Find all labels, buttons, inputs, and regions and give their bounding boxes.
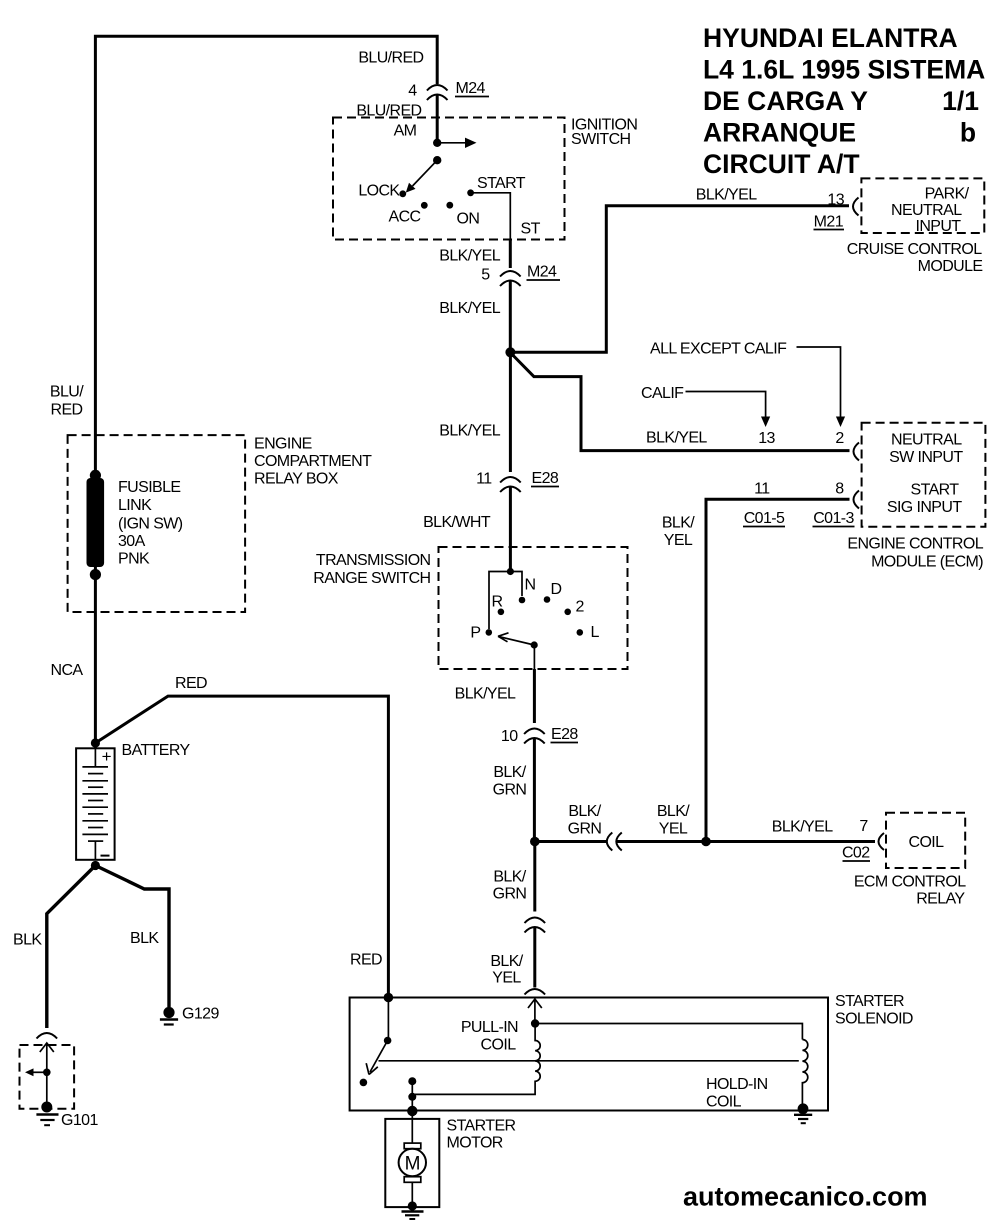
hold-in coil windings — [802, 1040, 807, 1109]
starter motor box — [385, 1119, 439, 1207]
wire BLK to G129 — [95, 866, 169, 1008]
wire branch CALIF/ALL-EXCEPT to ECM — [512, 355, 849, 451]
svg-text:COIL: COIL — [706, 1094, 742, 1111]
svg-text:BLU/: BLU/ — [50, 384, 84, 401]
svg-text:ACC: ACC — [389, 209, 421, 226]
svg-text:RANGE SWITCH: RANGE SWITCH — [313, 570, 430, 587]
wire BLK/YEL to starter solenoid — [533, 927, 536, 988]
svg-text:13: 13 — [758, 430, 775, 447]
svg-text:2: 2 — [835, 430, 844, 447]
svg-text:MODULE: MODULE — [918, 258, 983, 275]
svg-text:DE CARGA Y: DE CARGA Y — [703, 86, 868, 116]
svg-text:13: 13 — [827, 192, 844, 209]
svg-text:5: 5 — [481, 267, 490, 284]
svg-text:E28: E28 — [532, 470, 559, 487]
ignition switch blade toward LOCK — [413, 160, 438, 186]
svg-text:PULL-IN: PULL-IN — [461, 1019, 518, 1036]
svg-text:C02: C02 — [842, 845, 870, 862]
connector in-line vertical (BLK/GRN - BLK/YEL) — [525, 918, 546, 933]
svg-text:C01-3: C01-3 — [813, 510, 854, 527]
transmission range switch dashed box — [439, 547, 628, 669]
starter solenoid box — [350, 998, 828, 1111]
node starter motor terminal (lower) — [408, 1093, 416, 1101]
svg-text:PARK/: PARK/ — [925, 186, 970, 203]
svg-text:11: 11 — [476, 471, 492, 488]
wire to hold-in coil — [535, 1024, 802, 1040]
svg-text:C01-5: C01-5 — [744, 510, 785, 527]
connector pin 8 at ECM — [854, 491, 860, 509]
svg-text:10: 10 — [501, 728, 518, 745]
solenoid switch contact (bottom) — [360, 1079, 368, 1087]
svg-text:D: D — [551, 581, 562, 598]
svg-text:COMPARTMENT: COMPARTMENT — [254, 453, 372, 470]
svg-text:2: 2 — [576, 599, 585, 616]
svg-text:LINK: LINK — [118, 497, 152, 514]
svg-text:CALIF: CALIF — [641, 385, 684, 402]
svg-text:BLK/YEL: BLK/YEL — [439, 248, 500, 265]
wire BLK/YEL to junction — [509, 281, 512, 353]
svg-text:ECM CONTROL: ECM CONTROL — [854, 874, 966, 891]
svg-text:ON: ON — [457, 211, 480, 228]
battery — [76, 748, 115, 860]
svg-text:GRN: GRN — [493, 886, 527, 903]
solenoid switch blade with open arrow — [366, 1041, 387, 1075]
connector at G101 (arc + arrow) — [37, 1033, 58, 1039]
svg-text:R: R — [492, 594, 503, 611]
wire BLK/GRN to junction — [533, 738, 536, 842]
wire BLU/RED into ignition switch — [436, 95, 439, 144]
wire to starter motor — [411, 1081, 413, 1143]
svg-text:HOLD-IN: HOLD-IN — [706, 1076, 768, 1093]
connector M24 pin 5 (in-line, vertical) — [500, 271, 521, 286]
node RED wire entry on solenoid — [384, 993, 394, 1003]
connector M24 pin 4 (in-line, vertical) — [427, 85, 448, 100]
solenoid main contact bar — [379, 1060, 799, 1062]
wire BLU/RED battery feed: left vertical + top run to ignition switch — [95, 36, 437, 743]
connector C02 at ECM control relay coil — [879, 833, 885, 850]
svg-text:PNK: PNK — [118, 551, 150, 568]
svg-text:30A: 30A — [118, 533, 146, 550]
svg-text:BLK/: BLK/ — [493, 764, 526, 781]
svg-text:INPUT: INPUT — [915, 218, 961, 235]
svg-text:11: 11 — [754, 481, 770, 498]
svg-text:MODULE (ECM): MODULE (ECM) — [871, 554, 983, 571]
connector M21 at cruise control module — [853, 198, 859, 216]
svg-text:SIG INPUT: SIG INPUT — [887, 499, 962, 516]
wire BLK/YEL down from junction — [509, 352, 512, 472]
svg-text:COIL: COIL — [481, 1037, 517, 1054]
wire BLK/YEL to junction at ECM feed — [616, 840, 876, 843]
svg-text:P: P — [470, 625, 480, 642]
svg-text:BLK/YEL: BLK/YEL — [455, 686, 516, 703]
ignition switch pivot node — [433, 156, 441, 164]
svg-text:COIL: COIL — [909, 834, 945, 851]
svg-text:ENGINE: ENGINE — [254, 436, 312, 453]
svg-text:N: N — [525, 577, 536, 594]
wire BLK/GRN right to in-line connector — [535, 840, 607, 843]
ground at hold-in coil — [798, 1103, 809, 1114]
wire BLK to G101 — [47, 866, 96, 1029]
svg-text:1/1: 1/1 — [942, 86, 979, 116]
svg-text:BLK/: BLK/ — [493, 869, 526, 886]
svg-text:NEUTRAL: NEUTRAL — [891, 202, 962, 219]
svg-text:RELAY BOX: RELAY BOX — [254, 471, 339, 488]
cruise control module PARK/NEUTRAL INPUT dashed box — [861, 178, 984, 233]
ignition switch wiper arrow to right — [437, 142, 466, 144]
svg-text:AM: AM — [394, 123, 417, 140]
svg-text:ALL EXCEPT CALIF: ALL EXCEPT CALIF — [650, 341, 787, 358]
connector pin 2 at ECM — [854, 443, 860, 461]
connector E28 pin 11 (in-line, vertical) — [500, 477, 521, 492]
pull-in coil windings — [412, 1024, 540, 1095]
node inside G101 with left arrow — [43, 1069, 51, 1077]
wire BLK/WHT into transmission range switch — [509, 487, 512, 572]
svg-text:SWITCH: SWITCH — [571, 131, 631, 148]
svg-text:BLK/: BLK/ — [568, 803, 601, 820]
svg-text:SOLENOID: SOLENOID — [835, 1011, 913, 1028]
svg-text:BLK/: BLK/ — [662, 515, 695, 532]
wire BLK/YEL below TRS — [533, 645, 535, 669]
G101 dashed box — [20, 1045, 75, 1109]
node on solenoid box bottom edge — [407, 1106, 417, 1116]
svg-text:+: + — [102, 747, 112, 766]
svg-text:L4 1.6L 1995 SISTEMA: L4 1.6L 1995 SISTEMA — [703, 55, 985, 85]
svg-text:8: 8 — [835, 481, 844, 498]
svg-text:START: START — [911, 482, 960, 499]
svg-text:ARRANQUE: ARRANQUE — [703, 118, 856, 148]
svg-text:HYUNDAI ELANTRA: HYUNDAI ELANTRA — [703, 23, 958, 53]
svg-text:BLK/WHT: BLK/WHT — [423, 514, 491, 531]
svg-text:START: START — [477, 175, 526, 192]
solenoid switch contact (top) — [384, 1037, 392, 1045]
wire bracket to P and N contacts — [489, 572, 522, 630]
wire ST from START contact — [471, 193, 511, 240]
svg-text:YEL: YEL — [664, 532, 693, 549]
svg-text:TRANSMISSION: TRANSMISSION — [316, 552, 431, 569]
svg-text:GRN: GRN — [568, 821, 602, 838]
wire START SIG to ECM pin 8 — [706, 499, 850, 841]
svg-text:M: M — [405, 1154, 420, 1175]
wire motor to ground — [411, 1182, 413, 1206]
wire RED from battery to solenoid — [95, 696, 388, 997]
TITLE BLOCK — [703, 23, 985, 179]
svg-text:M24: M24 — [456, 80, 486, 97]
connector at solenoid case (arc + arrow) — [525, 989, 546, 995]
svg-text:STARTER: STARTER — [447, 1118, 516, 1135]
svg-text:ENGINE CONTROL: ENGINE CONTROL — [847, 536, 983, 553]
svg-text:automecanico.com: automecanico.com — [683, 1182, 928, 1212]
engine control module dashed box — [862, 423, 986, 527]
svg-text:YEL: YEL — [659, 821, 688, 838]
node junction with ECM vertical wire — [701, 837, 711, 847]
ground G101 — [41, 1102, 52, 1113]
svg-text:M21: M21 — [814, 214, 844, 231]
connector in-line horizontal (BLK/GRN - BLK/YEL) — [607, 833, 622, 851]
ECM control relay COIL dashed box — [886, 813, 965, 868]
svg-text:BATTERY: BATTERY — [122, 742, 191, 759]
svg-text:BLK/YEL: BLK/YEL — [696, 187, 757, 204]
svg-text:M24: M24 — [527, 264, 557, 281]
svg-text:RED: RED — [175, 675, 207, 692]
node starter motor terminal (upper) — [408, 1077, 416, 1085]
svg-text:7: 7 — [859, 818, 868, 835]
node at wire entry inside TRS — [507, 568, 514, 575]
svg-text:BLK/: BLK/ — [657, 803, 690, 820]
svg-text:BLK/: BLK/ — [490, 953, 523, 970]
svg-text:L: L — [591, 624, 600, 641]
svg-text:BLK/YEL: BLK/YEL — [646, 430, 707, 447]
svg-text:E28: E28 — [551, 726, 578, 743]
svg-text:4: 4 — [408, 83, 417, 100]
svg-text:BLK: BLK — [130, 930, 159, 947]
svg-text:RED: RED — [350, 952, 382, 969]
svg-text:RELAY: RELAY — [916, 891, 965, 908]
fusible link (IGN SW) 30A PNK — [90, 470, 101, 481]
wire branch to park/neutral input M21 — [510, 206, 849, 352]
svg-text:ST: ST — [521, 221, 541, 238]
motor brush (bottom) — [404, 1177, 421, 1183]
ground at starter motor — [408, 1201, 417, 1210]
svg-text:SW INPUT: SW INPUT — [889, 449, 963, 466]
svg-text:NEUTRAL: NEUTRAL — [891, 432, 962, 449]
svg-text:MOTOR: MOTOR — [447, 1135, 503, 1152]
svg-text:(IGN SW): (IGN SW) — [118, 516, 183, 533]
svg-text:b: b — [960, 118, 976, 148]
svg-text:CIRCUIT A/T: CIRCUIT A/T — [703, 149, 860, 179]
node pull-in coil junction — [531, 1019, 539, 1027]
svg-text:G129: G129 — [182, 1006, 219, 1023]
svg-text:FUSIBLE: FUSIBLE — [118, 479, 181, 496]
svg-text:BLK/YEL: BLK/YEL — [439, 300, 500, 317]
svg-text:BLK/YEL: BLK/YEL — [439, 423, 500, 440]
node battery positive — [91, 738, 100, 747]
svg-text:STARTER: STARTER — [835, 993, 904, 1010]
svg-text:G101: G101 — [61, 1112, 98, 1129]
node junction BLK/GRN (left) — [530, 837, 540, 847]
svg-text:BLK/YEL: BLK/YEL — [772, 819, 833, 836]
connector E28 pin 10 (in-line, vertical) — [524, 729, 545, 744]
svg-text:GRN: GRN — [493, 782, 527, 799]
svg-text:BLU/RED: BLU/RED — [358, 50, 423, 67]
ground G129 — [163, 1007, 174, 1018]
TRS wiper blade with open arrow to P — [531, 641, 538, 648]
node main BLK/YEL junction — [505, 347, 515, 357]
wire BLK/GRN below junction — [533, 842, 536, 912]
ignition switch dashed box — [333, 118, 565, 240]
svg-text:CRUISE CONTROL: CRUISE CONTROL — [847, 241, 982, 258]
engine compartment relay box dashed — [68, 435, 246, 612]
node battery negative — [91, 861, 100, 870]
motor armature circle with M — [399, 1149, 426, 1176]
wire solenoid switch feed — [387, 998, 389, 1041]
svg-text:NCA: NCA — [51, 662, 84, 679]
wire BLK/YEL below ignition switch — [509, 240, 512, 269]
motor brush (top) — [404, 1143, 421, 1149]
svg-text:YEL: YEL — [492, 970, 521, 987]
svg-text:RED: RED — [51, 402, 83, 419]
svg-text:BLK: BLK — [13, 932, 42, 949]
svg-text:LOCK: LOCK — [358, 183, 400, 200]
